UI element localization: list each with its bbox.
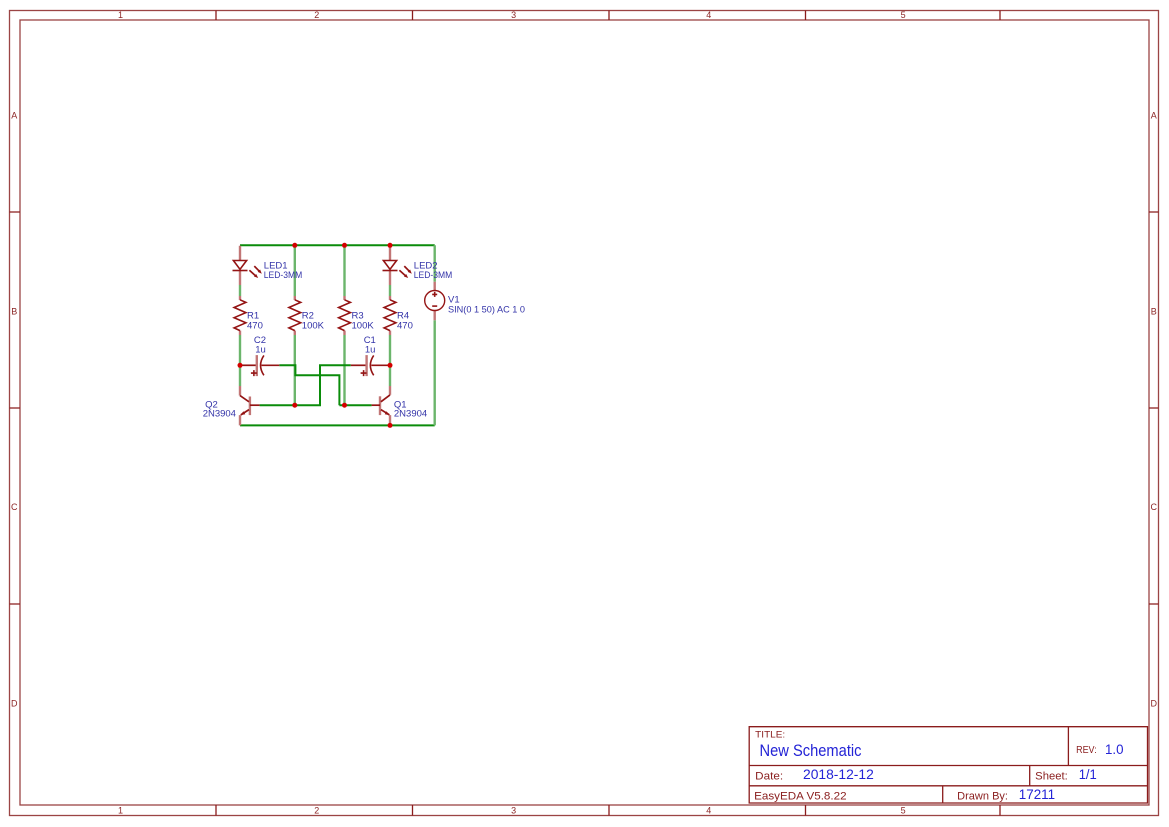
- capacitor C2: [240, 335, 279, 376]
- resistor R1: [234, 296, 263, 335]
- wire: C1 to Q2 base cross-coupling: [260, 365, 351, 405]
- svg-text:1: 1: [118, 10, 123, 20]
- svg-text:4: 4: [706, 10, 711, 20]
- svg-text:D: D: [1151, 698, 1158, 708]
- junction (240,365.3): [238, 363, 243, 368]
- LED LED1: [233, 246, 303, 285]
- wire: bottom rail: [240, 424, 435, 426]
- svg-text:LED-3MM: LED-3MM: [264, 270, 303, 281]
- wire: C2 to Q1 base cross-coupling: [279, 365, 371, 405]
- transistor Q1: [372, 386, 428, 425]
- svg-text:D: D: [11, 698, 18, 708]
- svg-text:1/1: 1/1: [1079, 767, 1097, 782]
- svg-text:Drawn By:: Drawn By:: [957, 791, 1008, 803]
- wire: top rail: [240, 244, 435, 246]
- wire: R1/LED1 column: [239, 285, 241, 386]
- wire: R3 column: [343, 245, 345, 405]
- junction (344.5,245.3): [342, 243, 347, 248]
- svg-text:EasyEDA V5.8.22: EasyEDA V5.8.22: [754, 791, 847, 803]
- svg-text:C: C: [11, 502, 18, 512]
- svg-text:1u: 1u: [365, 345, 376, 356]
- svg-text:100K: 100K: [302, 320, 325, 331]
- svg-text:Date:: Date:: [755, 771, 783, 783]
- svg-text:B: B: [11, 307, 17, 317]
- transistor Q2: [203, 386, 260, 425]
- svg-text:2N3904: 2N3904: [203, 409, 236, 420]
- resistor R4: [384, 296, 413, 335]
- junction (390,245.3): [388, 243, 393, 248]
- svg-text:4: 4: [706, 806, 711, 816]
- svg-text:TITLE:: TITLE:: [755, 730, 785, 741]
- svg-text:1u: 1u: [255, 345, 266, 356]
- svg-text:1.0: 1.0: [1105, 742, 1124, 757]
- wire: V1 column: [434, 245, 436, 425]
- title block: [749, 727, 1147, 803]
- svg-text:2: 2: [314, 10, 319, 20]
- svg-text:2N3904: 2N3904: [394, 409, 427, 420]
- junction (390,365.3): [388, 363, 393, 368]
- wire: R4/LED2 column: [389, 285, 391, 386]
- svg-text:Sheet:: Sheet:: [1035, 771, 1068, 783]
- LED LED2: [383, 246, 453, 285]
- svg-text:3: 3: [511, 10, 516, 20]
- junction (390,425.4): [388, 423, 393, 428]
- svg-text:A: A: [1151, 111, 1157, 121]
- junction (294.8,245.3): [292, 243, 297, 248]
- svg-text:REV:: REV:: [1076, 744, 1097, 756]
- resistor R2: [289, 296, 325, 335]
- capacitor C1: [351, 335, 390, 376]
- svg-text:5: 5: [901, 10, 906, 20]
- svg-text:17211: 17211: [1019, 787, 1055, 802]
- voltage source V1: [425, 282, 525, 321]
- svg-text:1: 1: [118, 806, 123, 816]
- svg-text:2018-12-12: 2018-12-12: [803, 767, 874, 782]
- svg-text:2: 2: [314, 806, 319, 816]
- svg-text:3: 3: [511, 806, 516, 816]
- svg-text:B: B: [1151, 307, 1157, 317]
- svg-text:A: A: [11, 111, 17, 121]
- svg-text:5: 5: [901, 806, 906, 816]
- junction (344.5,405.2): [342, 403, 347, 408]
- svg-text:New Schematic: New Schematic: [760, 742, 862, 760]
- svg-text:470: 470: [397, 320, 413, 331]
- svg-text:C: C: [1151, 502, 1158, 512]
- svg-text:SIN(0 1 50) AC 1 0: SIN(0 1 50) AC 1 0: [448, 305, 525, 316]
- svg-text:470: 470: [247, 320, 263, 331]
- junction (294.8,405.2): [292, 403, 297, 408]
- svg-text:100K: 100K: [352, 320, 375, 331]
- wire: R2 column: [294, 245, 296, 405]
- svg-text:LED-3MM: LED-3MM: [414, 270, 453, 281]
- resistor R3: [339, 296, 375, 335]
